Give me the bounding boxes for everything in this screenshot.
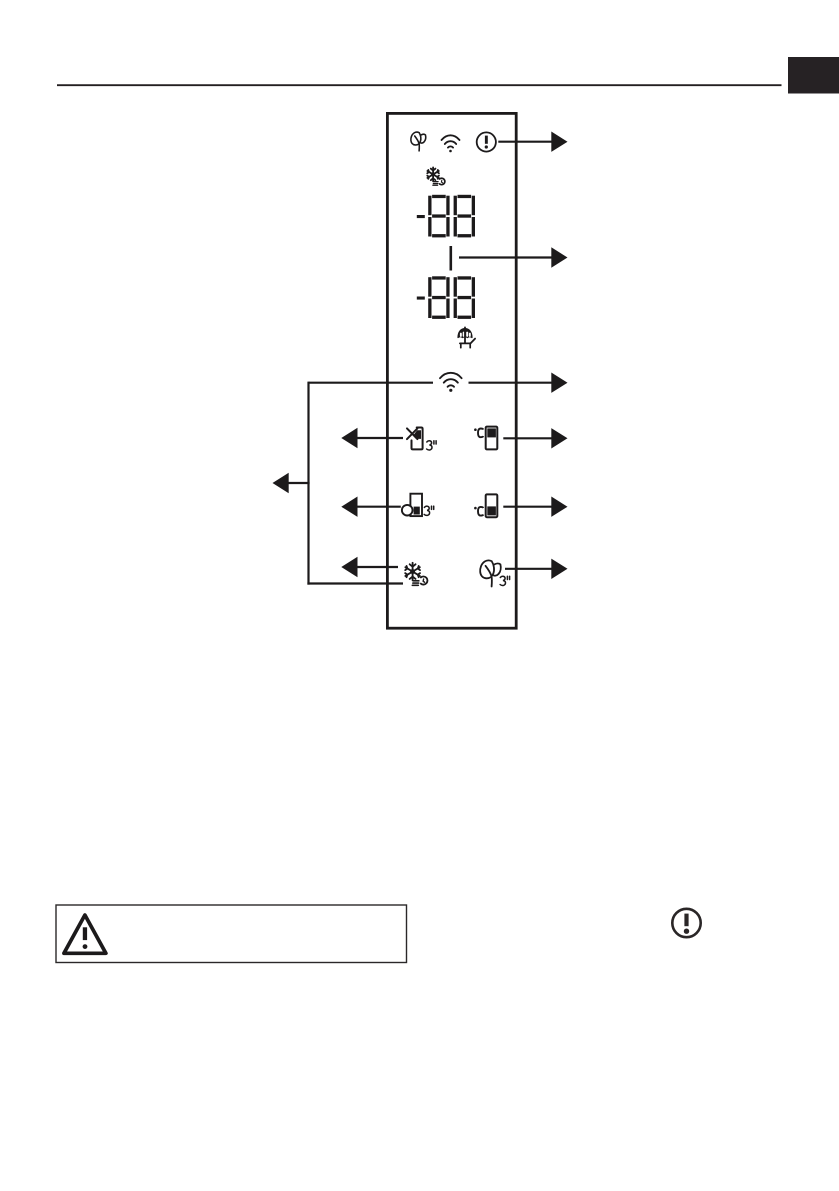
thermometer freezer button (°C, filled bottom) (474, 507, 483, 516)
arrow: alarm indicator callout (498, 141, 552, 143)
display divider (449, 246, 452, 271)
header rule (57, 84, 782, 86)
holiday indicator (umbrella + lounge chair) (458, 327, 475, 347)
wifi button (440, 373, 462, 387)
door alarm button (X + door + 3") (407, 428, 423, 450)
super freeze button (snowflake + clock) (405, 563, 427, 586)
header tab (black rectangle top right) (788, 57, 839, 94)
note icon (circle with !) (672, 909, 700, 937)
bracket bottom line (307, 582, 403, 584)
arrow: door open button callout (points left) (357, 506, 401, 508)
arrow: fridge temperature callout (503, 437, 552, 439)
eco indicator (leaf) (411, 132, 426, 151)
thermometer fridge button (°C, filled top) (474, 428, 483, 437)
wifi row line (left of icon, from bracket) (309, 382, 434, 384)
arrow: door alarm button callout (points left) (357, 437, 403, 439)
control panel outline (387, 113, 516, 628)
eco button (leaf + 3") (480, 560, 501, 586)
arrow: eco button callout (505, 568, 552, 570)
arrow: display divider callout (459, 256, 552, 258)
wifi indicator (442, 135, 460, 147)
arrow: freezer temperature callout (503, 506, 552, 508)
door open button (circle + door + 3") (410, 494, 422, 516)
arrow: bracket callout (points left) (286, 482, 310, 484)
arrow: super freeze button callout (points left) (357, 566, 398, 568)
arrow: wifi button callout (469, 382, 553, 384)
warning triangle (64, 915, 106, 953)
display: lower temperature (7-segment 88) (417, 276, 475, 319)
super freeze indicator (snowflake + clock) (427, 167, 445, 185)
warning box (56, 905, 407, 963)
alarm indicator (circle with !) (477, 132, 496, 151)
bracket vertical line (307, 382, 309, 585)
display: upper temperature (7-segment 88) (417, 195, 475, 238)
